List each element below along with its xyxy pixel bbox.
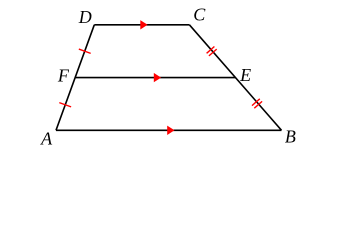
single tick on DF bbox=[79, 49, 91, 53]
side DC (top base) bbox=[94, 24, 189, 26]
side AB (bottom base) bbox=[56, 129, 282, 131]
single tick on FA bbox=[59, 103, 71, 107]
svg-text:B: B bbox=[285, 126, 296, 146]
double tick on CE (stroke 2) bbox=[209, 49, 217, 56]
arrow mark on AB bbox=[167, 126, 174, 135]
svg-text:F: F bbox=[57, 66, 70, 86]
side CB (right leg) bbox=[189, 25, 281, 131]
double tick on EB (stroke 1) bbox=[252, 99, 260, 106]
svg-text:E: E bbox=[239, 65, 251, 85]
arrow mark on FE bbox=[154, 73, 161, 82]
svg-text:D: D bbox=[78, 7, 92, 27]
svg-text:C: C bbox=[193, 5, 206, 25]
midsegment FE bbox=[75, 77, 235, 79]
double tick on CE (stroke 1) bbox=[207, 47, 215, 54]
side AD (left leg) bbox=[56, 25, 94, 131]
arrow mark on DC bbox=[140, 20, 147, 29]
double tick on EB (stroke 2) bbox=[254, 101, 262, 108]
svg-text:A: A bbox=[40, 128, 53, 148]
